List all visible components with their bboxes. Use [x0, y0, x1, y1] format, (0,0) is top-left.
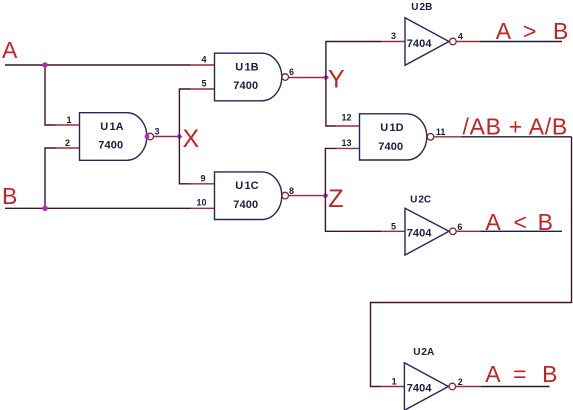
junction node X: [176, 134, 182, 140]
svg-text:7404: 7404: [407, 227, 433, 239]
svg-text:A: A: [2, 37, 18, 63]
svg-text:7400: 7400: [233, 80, 258, 92]
svg-text:7404: 7404: [407, 383, 433, 395]
wire net A vertical to pin 1: [45, 65, 56, 125]
svg-text:/AB + A/B: /AB + A/B: [463, 114, 568, 140]
svg-text:=: =: [513, 361, 526, 387]
svg-text:1: 1: [66, 115, 71, 125]
svg-text:5: 5: [201, 79, 206, 89]
inverter U2A bubble: [449, 383, 456, 390]
junction node A: [42, 62, 47, 67]
svg-text:B: B: [542, 361, 557, 387]
wire pin 10 stub: [191, 207, 215, 209]
svg-text:U2C: U2C: [410, 194, 431, 205]
svg-text:<: <: [514, 209, 527, 235]
svg-text:A: A: [485, 209, 501, 235]
svg-text:6: 6: [289, 67, 294, 77]
svg-text:7400: 7400: [378, 141, 403, 153]
svg-text:A: A: [496, 18, 512, 44]
wire net X vertical: [179, 89, 190, 184]
inverter U2A body: [404, 363, 448, 410]
svg-text:13: 13: [341, 138, 351, 148]
junction node Y: [323, 75, 329, 81]
svg-text:U2A: U2A: [413, 347, 434, 358]
inverter U2B body: [405, 18, 449, 66]
wire U2C input stub: [381, 230, 405, 232]
NAND gate U1B body: [215, 53, 282, 101]
NAND gate U1C body: [215, 172, 282, 220]
wire U2A input stub: [381, 386, 405, 388]
svg-text:7400: 7400: [98, 140, 123, 152]
junction at U1A output pin: [145, 134, 150, 139]
inverter U2C body: [405, 208, 449, 255]
svg-text:B: B: [553, 18, 568, 44]
junction node Z: [322, 193, 328, 199]
svg-text:U1C: U1C: [235, 180, 259, 192]
wire net Z vertical: [325, 148, 381, 231]
inverter U2B bubble: [450, 38, 457, 45]
svg-text:11: 11: [436, 127, 446, 137]
wire A equal B run: [481, 386, 550, 388]
svg-text:U1B: U1B: [235, 61, 259, 73]
wire pin 9 stub: [191, 183, 215, 185]
svg-text:8: 8: [289, 186, 294, 196]
svg-text:2: 2: [458, 377, 463, 387]
svg-text:2: 2: [65, 138, 70, 148]
svg-text:B: B: [538, 209, 553, 235]
svg-text:A: A: [485, 361, 501, 387]
wire U1A output to node X: [154, 136, 180, 138]
wire net Y vertical: [326, 42, 381, 127]
wire pin 4 stub: [191, 64, 215, 66]
svg-text:3: 3: [391, 31, 396, 41]
wire A greater B run: [480, 41, 563, 43]
NAND gate U1D body: [360, 114, 427, 160]
svg-text:6: 6: [457, 222, 462, 232]
svg-text:4: 4: [458, 32, 463, 42]
svg-text:U1D: U1D: [380, 122, 404, 134]
wire U1D output stub: [434, 136, 461, 138]
svg-text:4: 4: [201, 55, 206, 65]
wire pin 2 stub: [56, 147, 80, 149]
wire U1C output to node Z: [289, 195, 326, 197]
wire U2C output stub: [456, 230, 480, 232]
svg-text:1: 1: [392, 377, 397, 387]
wire XNOR output run: [461, 136, 572, 138]
svg-text:9: 9: [200, 173, 205, 183]
NAND gate U1B bubble: [282, 74, 289, 81]
wire pin 1 stub: [56, 124, 80, 126]
svg-text:U2B: U2B: [411, 2, 432, 13]
NAND gate U1A bubble: [147, 133, 154, 140]
wire pin 13 stub: [336, 147, 360, 149]
wire U2A output stub: [456, 386, 481, 388]
wire feedback right vertical: [371, 137, 572, 387]
svg-text:B: B: [2, 183, 17, 209]
svg-text:Y: Y: [328, 66, 345, 94]
wire net A horizontal: [5, 64, 191, 66]
wire U1B output to node Y: [289, 77, 326, 79]
junction node B: [42, 206, 47, 211]
wire net B vertical to pin 2: [45, 148, 56, 208]
wire net B horizontal: [5, 207, 191, 209]
svg-text:>: >: [523, 18, 536, 44]
wire pin 12 stub: [336, 125, 360, 127]
wire U2B output stub: [456, 41, 479, 43]
svg-text:U1A: U1A: [100, 121, 124, 133]
wire A less B run: [480, 230, 562, 232]
svg-text:12: 12: [341, 113, 351, 123]
NAND gate U1C bubble: [282, 192, 289, 199]
wire pin 5 stub: [191, 88, 215, 90]
svg-text:3: 3: [155, 127, 160, 137]
svg-text:7404: 7404: [407, 38, 433, 50]
svg-text:Z: Z: [328, 185, 343, 213]
wire U2B input stub: [381, 41, 405, 43]
svg-text:7400: 7400: [233, 199, 258, 211]
svg-text:10: 10: [196, 197, 206, 207]
NAND gate U1D bubble: [427, 134, 434, 141]
NAND gate U1A body: [80, 113, 147, 161]
svg-text:X: X: [183, 125, 200, 153]
inverter U2C bubble: [450, 228, 457, 235]
svg-text:5: 5: [391, 221, 396, 231]
